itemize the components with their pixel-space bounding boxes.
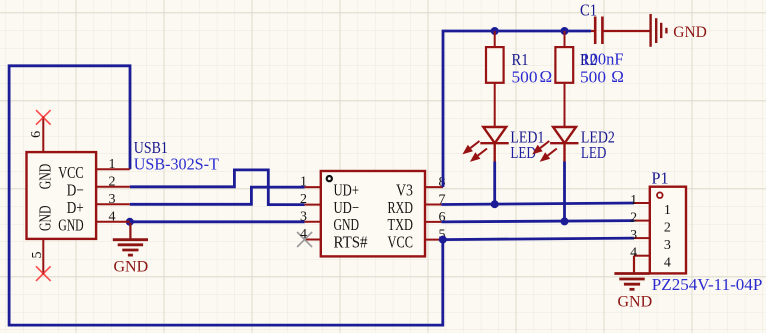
svg-text:LED: LED	[581, 143, 607, 162]
svg-text:UD−: UD−	[334, 198, 360, 217]
svg-text:2: 2	[664, 221, 671, 236]
svg-text:500: 500	[580, 68, 606, 87]
U pin 4 (RTS#, unconnected)	[305, 239, 321, 241]
P1 pin 3	[634, 237, 650, 239]
P1 pin 2	[634, 220, 650, 222]
svg-text:PZ254V-11-04P: PZ254V-11-04P	[652, 275, 763, 294]
svg-text:Ω: Ω	[540, 67, 553, 86]
svg-text:C1: C1	[580, 1, 597, 20]
U pin 2 (UD-)	[305, 204, 321, 206]
no-connect X pin 5	[36, 266, 51, 281]
svg-text:V3: V3	[396, 180, 413, 199]
IC U? (USB-serial) body	[321, 171, 425, 256]
U pin 5 (VCC)	[425, 239, 443, 241]
P1 pin 4	[634, 255, 650, 257]
svg-text:D+: D+	[67, 198, 84, 217]
svg-text:2: 2	[109, 174, 116, 189]
wire V3 rail (up from pin 8, across top to C1)	[443, 31, 591, 187]
svg-text:P1: P1	[652, 169, 669, 188]
no-connect X pin 6	[36, 110, 51, 125]
svg-text:3: 3	[300, 209, 307, 224]
junction U pin5 / bottom loop	[439, 236, 447, 244]
svg-text:GND: GND	[673, 24, 707, 41]
svg-text:R1: R1	[512, 50, 529, 69]
svg-text:Ω: Ω	[611, 67, 624, 86]
svg-text:LED: LED	[510, 143, 536, 162]
wire P1 pin4 to ground	[633, 256, 635, 274]
connector P1 body	[650, 187, 686, 274]
wire RXD: U pin7 to P1 pin1	[441, 203, 634, 205]
svg-text:2: 2	[300, 192, 307, 207]
pin 2 (D-)	[96, 186, 130, 188]
U pin 1 (UD+)	[305, 186, 321, 188]
svg-text:6: 6	[29, 131, 44, 138]
U pin 8 (V3)	[425, 186, 443, 188]
svg-text:4: 4	[109, 209, 116, 224]
svg-text:USB-302S-T: USB-302S-T	[134, 154, 220, 173]
pin 1 (VCC)	[96, 168, 130, 170]
resistor R1	[494, 31, 496, 47]
svg-text:3: 3	[630, 228, 637, 243]
svg-text:100nF: 100nF	[582, 49, 624, 68]
junction LED1 / RXD wire	[491, 200, 499, 208]
U pin 6 (TXD)	[425, 221, 441, 223]
svg-text:1: 1	[630, 193, 637, 208]
svg-text:4: 4	[300, 227, 307, 242]
svg-text:1: 1	[664, 203, 671, 218]
svg-text:GND: GND	[618, 294, 653, 311]
svg-text:GND: GND	[58, 216, 83, 235]
pin 3 (D+)	[96, 203, 130, 205]
svg-text:5: 5	[30, 252, 45, 259]
svg-text:1: 1	[300, 175, 307, 190]
U pin 3 (GND)	[305, 221, 321, 223]
svg-text:GND: GND	[334, 215, 360, 234]
wire TXD: U pin6 to P1 pin2	[441, 221, 634, 222]
pin-1 indicator circle	[327, 176, 332, 181]
wire D- : USB pin2 hop over to UD-	[130, 170, 305, 205]
resistor R2	[564, 31, 566, 47]
LED2 lower wire	[563, 162, 566, 222]
wire VCC: U pin5 to P1 pin3	[443, 238, 634, 240]
svg-text:D−: D−	[67, 181, 84, 200]
junction LED2 / TXD wire	[561, 217, 569, 225]
connector USB1	[27, 152, 97, 239]
pin-1 indicator circle	[657, 192, 663, 198]
svg-text:3: 3	[109, 192, 116, 207]
LED LED1	[480, 127, 508, 162]
svg-text:2: 2	[630, 211, 637, 226]
capacitor C1	[591, 30, 595, 32]
pin 5 (shield, unconnected)	[42, 239, 44, 274]
svg-text:UD+: UD+	[334, 180, 360, 199]
LED1 emission arrows	[465, 141, 488, 160]
svg-text:VCC: VCC	[58, 163, 83, 182]
svg-text:3: 3	[664, 238, 671, 253]
svg-text:1: 1	[109, 157, 116, 172]
svg-text:VCC: VCC	[388, 233, 414, 252]
P1 pin 1	[634, 202, 650, 204]
svg-text:4: 4	[664, 256, 671, 271]
svg-text:RXD: RXD	[388, 198, 414, 217]
pin 6 (shield, unconnected)	[42, 117, 44, 152]
junction R1 top	[491, 27, 499, 35]
svg-text:TXD: TXD	[388, 215, 414, 234]
junction USB pin4 / GND	[126, 218, 134, 226]
LED2 emission arrows	[534, 141, 557, 160]
LED LED2	[550, 127, 578, 162]
svg-text:RTS#: RTS#	[334, 233, 368, 252]
LED1 lower wire	[493, 162, 496, 205]
svg-text:GND: GND	[36, 206, 55, 232]
wire GND : USB pin4 to U GND pin3	[130, 220, 305, 223]
ground GND (USB)	[113, 223, 148, 255]
wire VCC loop: USB pin1 up, across, down left edge, along bottom, up to U pin5	[9, 66, 443, 325]
svg-text:500: 500	[512, 68, 538, 87]
no-connect X pin 4	[297, 232, 312, 247]
junction R2 top	[561, 27, 569, 35]
power ground GND (right of C1, sideways bars)	[651, 14, 667, 47]
svg-text:GND: GND	[36, 164, 55, 190]
svg-text:GND: GND	[114, 259, 149, 276]
U pin 7 (RXD)	[425, 204, 441, 206]
pin 4 (GND)	[96, 221, 130, 223]
wire D+ : USB pin3 up to UD+	[130, 187, 305, 204]
ground GND (P1)	[614, 274, 649, 290]
